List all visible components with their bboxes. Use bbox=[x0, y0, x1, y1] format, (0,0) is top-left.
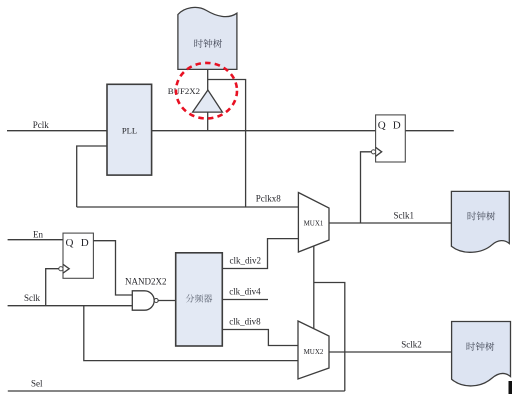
U2 clock triangle bbox=[376, 147, 382, 156]
svg-text:Sclk1: Sclk1 bbox=[394, 211, 415, 221]
MUX1 bbox=[298, 193, 329, 253]
PLL U1 bbox=[107, 84, 152, 175]
wire U3 D output to NAND input A bbox=[93, 241, 132, 295]
wire Sel input bbox=[8, 390, 345, 392]
svg-text:NAND2X2: NAND2X2 bbox=[125, 277, 167, 287]
red dashed highlight ellipse bbox=[176, 63, 237, 119]
wire Sclk2 MUX2 output bbox=[329, 351, 452, 353]
wire buffer output tap down to Pclkx8 bbox=[208, 80, 246, 208]
U3 clock triangle bbox=[63, 264, 69, 273]
wire clk_div2 to MUX1 input B bbox=[222, 239, 298, 269]
wire U3 clock from Sclk bbox=[46, 269, 59, 306]
MUX2 bbox=[298, 321, 329, 379]
divider box (分频器) bbox=[176, 253, 223, 346]
flip-flop U3 (left) bbox=[63, 233, 93, 278]
svg-text:PLL: PLL bbox=[122, 126, 137, 136]
document: right clock tree 1 (时钟树) bbox=[451, 191, 509, 252]
wire buffer input from PLL output bbox=[207, 112, 209, 131]
wire PLL output to FF and right bbox=[152, 130, 454, 132]
svg-text:Pclk: Pclk bbox=[33, 120, 50, 130]
document: right clock tree 2 (时钟树) bbox=[452, 322, 511, 386]
svg-text:Sel: Sel bbox=[31, 379, 43, 389]
NAND output bubble bbox=[154, 299, 158, 303]
svg-text:D: D bbox=[393, 119, 401, 131]
svg-text:clk_div8: clk_div8 bbox=[229, 317, 261, 327]
U2 clock bubble bbox=[371, 150, 375, 154]
U3 clock bubble bbox=[59, 267, 63, 271]
svg-text:Pclkx8: Pclkx8 bbox=[256, 194, 282, 204]
svg-text:clk_div2: clk_div2 bbox=[230, 256, 262, 266]
wire PLL feedback input bbox=[77, 146, 107, 207]
wire Pclk input bbox=[7, 130, 107, 132]
wire Sclk branch to MUX2 input B bbox=[84, 306, 298, 361]
svg-text:MUX1: MUX1 bbox=[304, 220, 324, 228]
svg-text:Q: Q bbox=[378, 119, 386, 131]
wire MUX select net from Sel bbox=[314, 246, 345, 391]
wire buffer output to clock tree bbox=[207, 69, 209, 90]
flip-flop U2 (top right) bbox=[376, 115, 406, 162]
svg-text:Sclk2: Sclk2 bbox=[401, 340, 422, 350]
NAND gate NAND2X2 bbox=[132, 291, 154, 310]
wire U2 clock from Sclk1 bbox=[361, 152, 372, 223]
svg-text:clk_div4: clk_div4 bbox=[229, 286, 261, 296]
wire Pclkx8 net bbox=[77, 206, 299, 208]
wire clk_div8 to MUX2 input A bbox=[222, 330, 298, 346]
buffer BUF2X2 triangle bbox=[193, 90, 223, 112]
wire Sclk1 MUX1 output bbox=[329, 222, 451, 224]
svg-text:D: D bbox=[81, 237, 89, 249]
svg-text:BUF2X2: BUF2X2 bbox=[168, 86, 200, 96]
wire En input bbox=[8, 239, 63, 241]
document: top clock tree (时钟树) bbox=[178, 7, 237, 69]
wire Sclk input bbox=[8, 305, 133, 307]
svg-text:Q: Q bbox=[66, 237, 74, 249]
cursor artifact bottom right bbox=[509, 381, 512, 394]
wire clk_div4 stub bbox=[222, 299, 268, 301]
wire NAND output to divider bbox=[158, 300, 176, 302]
svg-text:MUX2: MUX2 bbox=[304, 348, 324, 356]
svg-text:Sclk: Sclk bbox=[24, 293, 41, 303]
svg-text:En: En bbox=[33, 229, 43, 239]
